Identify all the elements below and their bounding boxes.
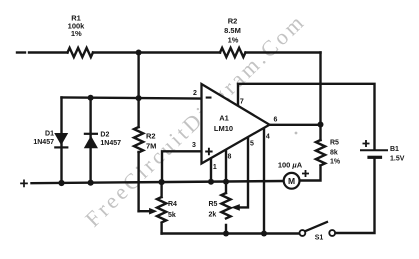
svg-text:1%: 1% xyxy=(71,29,82,38)
diode D2 body wire xyxy=(89,98,91,183)
resistor R2 7M zigzag xyxy=(134,127,143,152)
junction node pin4 bottom xyxy=(261,231,267,237)
battery B1 bottom plate xyxy=(369,156,381,159)
switch S1 lever xyxy=(306,222,328,231)
svg-text:R5: R5 xyxy=(209,201,218,208)
op-amp plus sign xyxy=(205,148,212,155)
wire bottom rail xyxy=(162,232,300,234)
junction node pin1 xyxy=(208,179,214,185)
svg-text:1.5V: 1.5V xyxy=(390,156,405,163)
resistor R5 8k xyxy=(300,140,325,181)
wire top rail middle xyxy=(93,51,220,53)
switch S1 left contact xyxy=(300,230,306,236)
meter M circle xyxy=(284,173,300,189)
svg-text:R2: R2 xyxy=(146,132,156,141)
diode D1 body wire xyxy=(60,97,62,183)
svg-text:3: 3 xyxy=(192,142,196,149)
battery plus sign xyxy=(363,140,370,147)
junction node pin8 xyxy=(223,179,229,185)
svg-text:B1: B1 xyxy=(390,146,399,153)
junction node R5 2k bottom xyxy=(223,231,229,237)
junction node inverting rail xyxy=(136,95,142,101)
wire pin8 xyxy=(225,150,227,182)
svg-text:S1: S1 xyxy=(315,235,324,242)
wire noninverting rail xyxy=(32,181,285,183)
svg-text:8k: 8k xyxy=(330,150,338,157)
diode D1 symbol xyxy=(54,133,68,145)
svg-text:D2: D2 xyxy=(100,132,109,139)
resistor R4 5k xyxy=(157,182,166,233)
wire pin1 xyxy=(210,158,212,182)
junction node D2 top xyxy=(88,95,94,101)
wire top right vertical to output node xyxy=(319,53,321,141)
junction node top feedback xyxy=(136,50,142,56)
svg-text:2: 2 xyxy=(193,90,197,97)
wire pin7 to battery plus xyxy=(238,84,375,149)
junction node output xyxy=(318,122,324,128)
svg-text:M: M xyxy=(288,176,295,186)
svg-text:1N457: 1N457 xyxy=(33,139,54,146)
minus input terminal xyxy=(17,51,25,53)
wire node A vertical xyxy=(137,53,139,99)
op-amp minus sign xyxy=(206,97,212,99)
junction node D1 bottom xyxy=(58,180,64,186)
svg-text:2k: 2k xyxy=(209,212,217,219)
resistor R2 7M leads xyxy=(137,98,139,211)
svg-text:D1: D1 xyxy=(45,131,54,138)
wire battery minus down xyxy=(335,159,374,233)
svg-text:A1: A1 xyxy=(219,114,229,123)
svg-text:6: 6 xyxy=(274,117,278,124)
svg-text:8.5M: 8.5M xyxy=(224,26,241,35)
wire top rail left xyxy=(29,51,68,53)
resistor R5 2k xyxy=(221,182,230,234)
svg-text:LM10: LM10 xyxy=(214,124,233,133)
switch S1 right contact xyxy=(329,230,335,236)
svg-text:R5: R5 xyxy=(330,140,339,147)
wire pin5 wiper xyxy=(239,137,248,207)
arrowhead R4 wiper xyxy=(149,208,157,215)
svg-text:7: 7 xyxy=(240,98,244,105)
wire pin4 xyxy=(263,128,265,234)
svg-text:1%: 1% xyxy=(228,36,239,45)
junction node D2 bottom xyxy=(88,180,94,186)
svg-text:7M: 7M xyxy=(146,142,156,151)
svg-text:5k: 5k xyxy=(168,212,176,219)
wire pin6 output xyxy=(269,124,321,126)
resistor R2 feedback xyxy=(220,48,245,57)
svg-text:1N457: 1N457 xyxy=(100,140,121,147)
plus input terminal xyxy=(21,180,27,186)
wiper arrow R4 xyxy=(139,210,151,212)
svg-text:1%: 1% xyxy=(330,158,341,165)
wire top rail right xyxy=(246,51,321,53)
wire inverting rail xyxy=(62,97,202,98)
junction node R4 top xyxy=(159,179,165,185)
diode D2 symbol xyxy=(84,133,98,135)
svg-text:5: 5 xyxy=(250,141,254,148)
resistor R1 xyxy=(68,48,93,57)
svg-text:R2: R2 xyxy=(228,17,238,26)
arrowhead R5 wiper xyxy=(231,204,240,211)
svg-text:4: 4 xyxy=(266,133,270,140)
op-amp A1 triangle xyxy=(202,84,270,164)
svg-text:100 µA: 100 µA xyxy=(278,161,303,170)
wire pin3 stub xyxy=(162,151,202,182)
svg-text:1: 1 xyxy=(213,164,217,171)
scan speck xyxy=(295,132,298,135)
svg-text:R4: R4 xyxy=(168,201,177,208)
battery B1 top plate xyxy=(361,149,387,151)
svg-text:8: 8 xyxy=(228,154,232,161)
meter plus sign xyxy=(302,170,309,177)
